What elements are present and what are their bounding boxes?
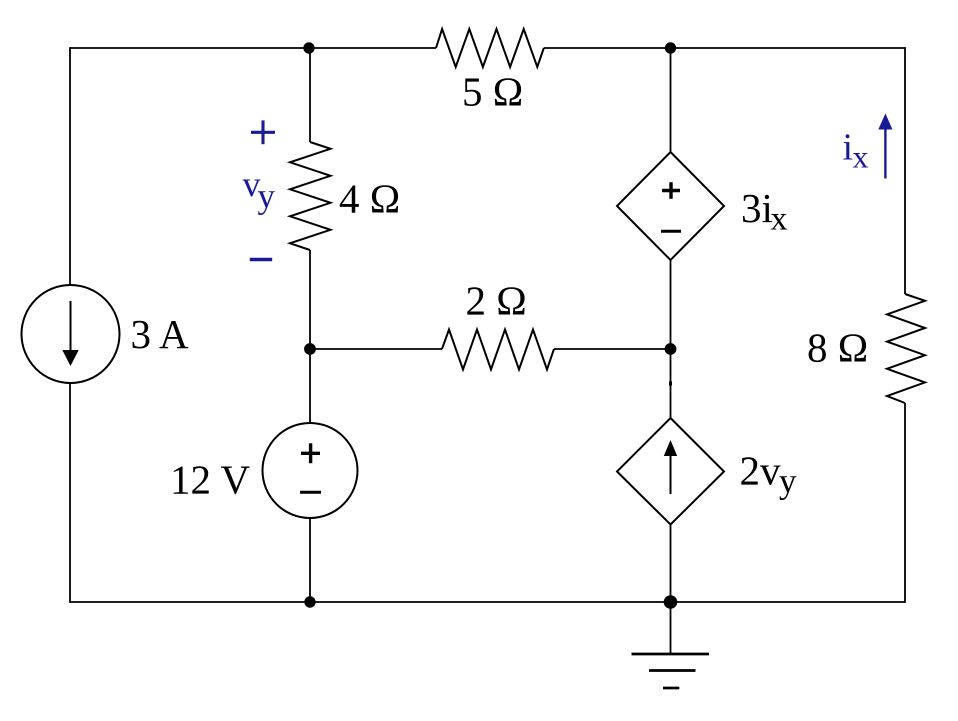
svg-text:2v: 2v: [740, 448, 782, 494]
svg-text:y: y: [779, 462, 797, 501]
svg-text:12 V: 12 V: [170, 457, 251, 503]
node top-left junction: [303, 42, 314, 53]
dependent current source 2vy: [617, 418, 724, 525]
wire middle column center: [309, 250, 311, 423]
svg-text:5 Ω: 5 Ω: [462, 69, 523, 115]
wire middle horizontal right: [554, 348, 671, 350]
label 2vy: [740, 448, 798, 501]
svg-text:y: y: [258, 177, 276, 216]
wire middle column upper: [309, 48, 311, 142]
node artifact tick: [669, 382, 672, 386]
wire left vertical lower: [69, 382, 71, 603]
label vy minus sign: [250, 258, 272, 262]
label 3ix: [741, 185, 788, 238]
svg-text:x: x: [771, 201, 788, 238]
resistor 5 Ohm: [436, 29, 544, 67]
resistor 8 Ohm: [887, 294, 925, 403]
svg-text:x: x: [853, 139, 869, 175]
wire top-left segment: [70, 47, 436, 49]
current source 3A: [22, 285, 120, 383]
label ix: [843, 127, 869, 175]
wire top-right segment: [544, 47, 905, 49]
node middle-left junction: [304, 343, 316, 355]
node bottom-right junction: [664, 595, 678, 609]
ground: [632, 654, 710, 688]
label vy plus sign: [251, 120, 275, 144]
dependent voltage source 3ix: [617, 152, 724, 260]
svg-text:3 A: 3 A: [131, 311, 189, 357]
node bottom-left junction: [304, 596, 315, 607]
wire bottom: [70, 601, 905, 603]
resistor 4 Ohm: [290, 142, 331, 250]
resistor 2 Ohm: [442, 330, 554, 370]
wire second column center: [670, 260, 672, 418]
current arrow ix: [878, 114, 892, 179]
svg-text:4 Ω: 4 Ω: [339, 176, 400, 222]
wire second column lower: [670, 525, 672, 603]
voltage source 12V: [263, 423, 358, 518]
wire middle horizontal left: [310, 348, 442, 350]
wire middle column lower: [309, 518, 311, 602]
node middle-right junction: [665, 343, 677, 355]
svg-text:3i: 3i: [741, 185, 773, 231]
wire right vertical upper: [904, 47, 906, 294]
svg-text:8 Ω: 8 Ω: [807, 325, 868, 371]
svg-text:i: i: [843, 127, 854, 169]
wire left vertical upper: [69, 47, 71, 286]
svg-text:2 Ω: 2 Ω: [466, 278, 527, 324]
wire right vertical lower: [904, 403, 906, 603]
node top-right junction: [665, 42, 676, 53]
wire ground stem: [670, 602, 672, 654]
label vy: [243, 164, 276, 216]
wire second column upper: [670, 48, 672, 152]
